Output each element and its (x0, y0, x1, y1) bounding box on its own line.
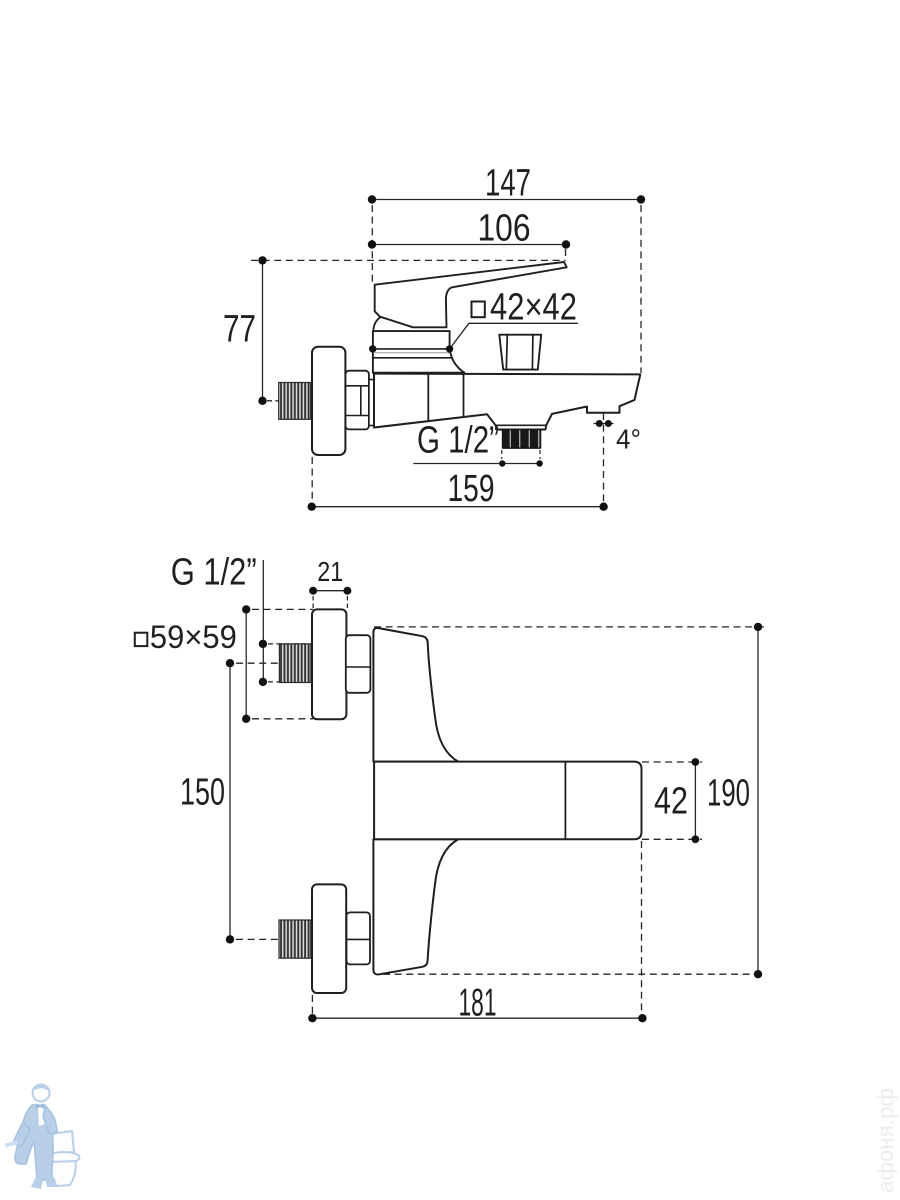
hair (33, 1084, 49, 1091)
spout face line (564, 763, 566, 839)
dimension 77 (262, 260, 264, 400)
svg-text:181: 181 (459, 982, 497, 1025)
svg-text:G 1/2”: G 1/2” (171, 552, 257, 594)
plumber logo watermark (5, 1084, 80, 1189)
collar between nut and body (369, 380, 374, 426)
spout block (front view) (374, 762, 641, 840)
arm with wrench (13, 1122, 30, 1147)
wall flange (side view) (312, 347, 345, 455)
dashed flange top level (252, 608, 313, 610)
shower hose connection rings (496, 424, 547, 426)
dashed verticals for 21 dim (312, 596, 314, 608)
toilet bowl rim (49, 1152, 80, 1163)
dashed extension, spout tip vertical (640, 205, 642, 373)
angle 4 deg marks (594, 423, 614, 425)
dimension 159 (312, 506, 604, 508)
dimension 147 (372, 199, 641, 201)
mixer body upper half (front view) (373, 628, 458, 762)
label square 59x59 (135, 633, 148, 646)
dashed thread top level (268, 643, 308, 645)
dashed below bottom flange (181) (311, 995, 313, 1017)
bow tie (36, 1103, 44, 1109)
right shoe (45, 1178, 57, 1187)
upper nipple thread (front view) (279, 644, 311, 683)
svg-text:42: 42 (654, 781, 688, 823)
dashed extension, handle tip (565, 249, 567, 261)
dashed thread bottom level (268, 681, 308, 683)
body section line 2 (spout joint) (463, 375, 465, 419)
svg-text:190: 190 (707, 773, 750, 815)
dimension 190 (757, 627, 759, 974)
left shoe (31, 1178, 43, 1189)
dimension 59 (flange height) (245, 609, 247, 718)
label square 42x42 (472, 302, 485, 318)
svg-text:59×59: 59×59 (150, 619, 237, 655)
svg-text:4°: 4° (616, 424, 641, 455)
dashed extension below spout outlet (603, 413, 605, 505)
svg-text:106: 106 (478, 208, 531, 250)
toilet pedestal (51, 1161, 75, 1186)
dashed spout top level (42) (642, 761, 702, 763)
shirt front (38, 1107, 45, 1126)
mixer body and spout (side view) (374, 374, 640, 448)
svg-text:150: 150 (180, 772, 225, 814)
dashed top of body level (190) (374, 626, 766, 628)
connection nut (side view) (346, 371, 369, 430)
lower connection nut (347, 912, 371, 964)
dashed extension below flange (311, 457, 313, 505)
mixer body lower half (front view) (373, 839, 458, 974)
shower hose thread (black) (503, 430, 541, 448)
dashed centerline of wall nipple (267, 400, 279, 402)
cartridge housing under handle (373, 331, 465, 373)
diverter knob on spout (499, 335, 541, 370)
dashed lower nipple centerline (236, 938, 278, 940)
dimension 21 (313, 590, 347, 592)
svg-text:77: 77 (223, 309, 256, 351)
dashed extension, left of handle base (371, 205, 373, 283)
dashed upper nipple centerline (236, 662, 310, 664)
plumber body suit (15, 1105, 53, 1180)
lower nipple thread (front view) (279, 920, 311, 958)
dashed extension line, handle top level (251, 259, 566, 261)
svg-text:42×42: 42×42 (490, 287, 577, 329)
dashed bottom of body level (190) (383, 973, 766, 975)
svg-text:G 1/2”: G 1/2” (417, 420, 499, 462)
svg-text:147: 147 (485, 163, 531, 205)
arm resting on tank (43, 1107, 58, 1134)
leader line for 42x42 (450, 323, 578, 349)
upper wall flange (front view) (312, 609, 346, 719)
wrench (5, 1140, 19, 1147)
toilet tank (51, 1131, 74, 1154)
svg-text:159: 159 (448, 468, 495, 510)
upper connection nut (346, 635, 371, 693)
dashed flange bottom level (252, 718, 313, 720)
head (33, 1085, 50, 1102)
dome below handle (373, 317, 381, 331)
dimension 150 (229, 663, 231, 939)
lower wall flange (front view) (312, 884, 346, 993)
dashed spout bottom level (42) (642, 838, 702, 840)
dimension 181 (312, 1017, 642, 1019)
wall nipple thread (side view) (279, 383, 311, 420)
body section line 1 (427, 374, 429, 422)
dimension 42 (694, 762, 696, 839)
svg-text:афоня.рф: афоня.рф (873, 1088, 898, 1193)
lever handle (side view) (375, 262, 567, 327)
dashed below spout right edge (181) (641, 841, 643, 1017)
dimension 106 (372, 244, 566, 246)
leader to thread dim (262, 560, 264, 682)
svg-text:21: 21 (317, 556, 343, 587)
